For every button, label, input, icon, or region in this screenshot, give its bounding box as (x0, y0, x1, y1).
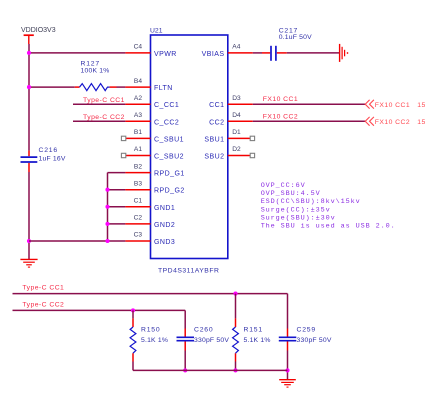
svg-text:ESD(CC\SBU):8kv\15kv: ESD(CC\SBU):8kv\15kv (261, 198, 361, 206)
svg-text:SBU2: SBU2 (204, 154, 224, 161)
svg-text:FX10 CC1: FX10 CC1 (263, 96, 298, 103)
ground symbol left (20, 259, 37, 267)
wire: C260 column (184, 310, 186, 370)
pin D1 SBU1 with no-connect (228, 137, 250, 139)
resistor R151 body (233, 327, 239, 353)
svg-text:R151: R151 (244, 327, 263, 334)
svg-text:U21: U21 (150, 28, 163, 35)
junction CC2/R150 (131, 308, 135, 312)
capacitor C217 body (271, 46, 276, 61)
pin B1 C_SBU1 with no-connect (126, 137, 151, 139)
svg-text:B2: B2 (134, 163, 142, 170)
capacitor C217 leads (262, 52, 287, 54)
off-page connector FX10 CC2 (365, 117, 374, 126)
wire: RPD_G1 row (108, 172, 126, 174)
pin B2 RPD_G1 (125, 172, 150, 174)
svg-text:C_CC1: C_CC1 (154, 102, 179, 109)
pin names left column (154, 51, 185, 246)
wire: C217 to ground (287, 52, 340, 54)
pin A3 C_CC2 (125, 120, 150, 122)
wire: Type-C CC1 to C_CC1 (73, 103, 125, 105)
wire: VBIAS to C217 (253, 52, 262, 54)
svg-text:VPWR: VPWR (154, 51, 177, 58)
wire: R150 column (132, 310, 134, 370)
IC U21 body (151, 35, 228, 259)
junction bus/RPD_G2 (105, 188, 109, 192)
junction R151/bottom wire (233, 368, 237, 372)
pin A1 C_SBU2 with no-connect (126, 155, 151, 157)
pin D3 CC1 (228, 103, 253, 105)
svg-text:C_SBU2: C_SBU2 (154, 154, 184, 161)
capacitor C259 leads (287, 329, 289, 351)
junction bus/GND3 (105, 239, 109, 243)
wire: GND1 row (108, 206, 126, 208)
svg-text:CC2: CC2 (209, 119, 224, 126)
svg-text:GND3: GND3 (154, 239, 175, 246)
wire: bottom return (133, 369, 288, 371)
ground symbol bottom (279, 380, 296, 387)
svg-text:RPD_G2: RPD_G2 (154, 188, 185, 195)
junction at rail/GND3 row (27, 239, 31, 243)
svg-text:FX10 CC1: FX10 CC1 (375, 102, 410, 109)
pin A4 VBIAS (228, 52, 253, 54)
resistor R151 leads (235, 318, 237, 361)
power symbol VDDIO3V3 (24, 35, 34, 44)
svg-text:100K 1%: 100K 1% (81, 67, 110, 74)
capacitor C260 leads (184, 329, 186, 351)
junction at rail/VPWR (27, 51, 31, 55)
svg-text:Type-C CC1: Type-C CC1 (83, 97, 125, 104)
wire: left pulldown bus vertical (107, 173, 109, 241)
svg-text:1uF 16V: 1uF 16V (39, 155, 66, 162)
svg-text:5.1K 1%: 5.1K 1% (244, 337, 271, 344)
junction at rail/FLTN (27, 85, 31, 89)
pin C4 VPWR (125, 52, 150, 54)
svg-text:OVP_CC:6V: OVP_CC:6V (261, 182, 306, 190)
pin names right column (202, 51, 225, 161)
svg-text:C1: C1 (134, 198, 143, 205)
pin B3 RPD_G2 (125, 189, 150, 191)
svg-text:GND1: GND1 (154, 205, 175, 212)
svg-text:VDDIO3V3: VDDIO3V3 (21, 27, 56, 34)
capacitor C216 leads (28, 151, 30, 172)
junction C260/bottom wire (183, 368, 187, 372)
wire: left main vertical (VDDIO3V3 rail) (28, 44, 30, 259)
svg-text:5.1K 1%: 5.1K 1% (141, 337, 168, 344)
wire: GND2 row (108, 223, 126, 225)
svg-text:SBU1: SBU1 (204, 136, 224, 143)
off-page connector FX10 CC1 (365, 100, 374, 109)
svg-text:Type-C CC1: Type-C CC1 (22, 285, 64, 292)
pin C2 GND2 (125, 223, 150, 225)
svg-text:0.1uF 50V: 0.1uF 50V (279, 34, 312, 41)
pin A2 C_CC1 (125, 103, 150, 105)
svg-text:D2: D2 (232, 146, 241, 153)
svg-text:330pF 50V: 330pF 50V (297, 337, 332, 344)
svg-text:C3: C3 (134, 232, 143, 239)
wire: CC1 to off-page (253, 103, 366, 105)
junction bus/GND1 (105, 205, 109, 209)
pin D2 SBU2 with no-connect (228, 155, 250, 157)
svg-text:TPD4S311AYBFR: TPD4S311AYBFR (158, 267, 219, 274)
capacitor C259 body (279, 337, 297, 340)
svg-text:Type-C CC2: Type-C CC2 (22, 302, 64, 309)
wire: bottom Type-C CC1 (13, 293, 288, 295)
svg-text:Surge(CC):±35v: Surge(CC):±35v (261, 206, 331, 214)
svg-text:C4: C4 (134, 44, 143, 51)
capacitor C216 body (21, 157, 38, 162)
svg-text:VBIAS: VBIAS (202, 51, 225, 58)
svg-text:15: 15 (417, 119, 425, 126)
junction bus/GND2 (105, 222, 109, 226)
svg-text:R150: R150 (141, 327, 160, 334)
capacitor C260 body (177, 337, 195, 340)
svg-text:15: 15 (417, 102, 425, 109)
svg-text:The SBU is used as USB 2.0.: The SBU is used as USB 2.0. (261, 223, 396, 231)
svg-text:C_SBU1: C_SBU1 (154, 136, 184, 143)
pin C3 GND3 (125, 240, 150, 242)
svg-text:FX10 CC2: FX10 CC2 (263, 113, 298, 120)
svg-text:A1: A1 (134, 146, 142, 153)
wire: C259 column (287, 294, 289, 380)
svg-text:D4: D4 (232, 112, 241, 119)
wire: Type-C CC2 to C_CC2 (73, 120, 125, 122)
wire: FLTN row segments (29, 86, 125, 88)
wire: VPWR horizontal (29, 52, 125, 54)
svg-text:A3: A3 (134, 112, 142, 119)
svg-text:Type-C CC2: Type-C CC2 (83, 114, 125, 121)
svg-text:B3: B3 (134, 180, 142, 187)
pin D4 CC2 (228, 120, 253, 122)
svg-text:GND2: GND2 (154, 222, 175, 229)
svg-text:OVP_SBU:4.5V: OVP_SBU:4.5V (261, 190, 321, 198)
svg-text:RPD_G1: RPD_G1 (154, 171, 185, 178)
wire: R151 column (235, 294, 237, 371)
svg-text:C259: C259 (297, 327, 316, 334)
svg-text:FLTN: FLTN (154, 85, 173, 92)
wire: RPD_G2 row (108, 189, 126, 191)
junction CC1/R151 (233, 292, 237, 296)
note text block (261, 182, 396, 231)
svg-text:Surge(SBU):±30v: Surge(SBU):±30v (261, 214, 336, 222)
resistor R127 leads (75, 86, 117, 88)
wire: bottom Type-C CC2 (13, 309, 186, 311)
ground symbol right-facing (340, 44, 348, 62)
svg-text:FX10 CC2: FX10 CC2 (375, 119, 410, 126)
svg-text:330pF 50V: 330pF 50V (194, 337, 229, 344)
svg-text:B1: B1 (134, 129, 142, 136)
resistor R150 body (130, 327, 136, 353)
svg-text:C2: C2 (134, 215, 143, 222)
resistor R127 body (80, 84, 110, 91)
svg-text:C_CC2: C_CC2 (154, 119, 179, 126)
svg-text:CC1: CC1 (209, 102, 224, 109)
resistor R150 leads (132, 318, 134, 361)
wire: GND3 row horizontal (29, 240, 125, 242)
wire: CC2 to off-page (253, 120, 366, 122)
svg-text:B4: B4 (134, 78, 142, 85)
svg-text:C216: C216 (39, 147, 58, 154)
svg-text:D3: D3 (232, 95, 241, 102)
junction C259/bottom wire (285, 368, 289, 372)
pin C1 GND1 (125, 206, 150, 208)
svg-text:A4: A4 (232, 44, 240, 51)
pin B4 FLTN (125, 86, 150, 88)
svg-text:D1: D1 (232, 129, 241, 136)
svg-text:A2: A2 (134, 95, 142, 102)
svg-text:C260: C260 (194, 327, 213, 334)
